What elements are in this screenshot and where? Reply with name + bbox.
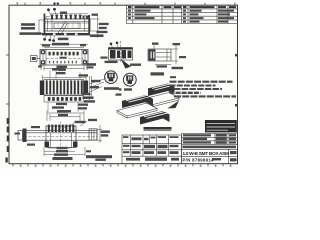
zone dots right edge bbox=[235, 54, 237, 106]
svg-text:P/N 87898914: P/N 87898914 bbox=[183, 158, 215, 163]
view 4 right end block bbox=[89, 129, 97, 140]
view 1 left dimension bbox=[38, 20, 44, 34]
view 4 left labels bbox=[15, 133, 36, 146]
view 2 upper dimension text band bbox=[40, 44, 88, 47]
view 3 right lower texts bbox=[83, 93, 96, 103]
view 4 leader labels upper right bbox=[75, 119, 98, 123]
view 3 lower pad row bbox=[44, 96, 84, 102]
iso B connector body bbox=[148, 84, 175, 97]
view 1 left end wall bbox=[44, 14, 46, 34]
view 5 right dimension bbox=[155, 45, 178, 65]
view 3 comb frame bbox=[44, 80, 84, 96]
view 4 left end piece bbox=[23, 129, 27, 143]
iso view B: connector on board (right) bbox=[143, 93, 179, 107]
view 4 feet bbox=[45, 142, 78, 148]
view 3 right dim lines bbox=[89, 76, 106, 100]
view 1 bottom seating band bbox=[42, 33, 90, 35]
iso view C: connector body alone bbox=[140, 111, 170, 125]
detail D arrow to circle C bbox=[121, 59, 132, 69]
leader arrow below notes bbox=[168, 101, 180, 109]
view 3 dim text rows below bbox=[52, 103, 88, 113]
view 4 small label above band left bbox=[31, 126, 40, 128]
view 2 lower dimension bbox=[41, 65, 87, 71]
view 4 center block bbox=[46, 126, 76, 148]
view 3 pin comb bars bbox=[46, 80, 83, 94]
zone ticks top edge bbox=[25, 3, 235, 6]
view 2 body bbox=[40, 50, 88, 66]
view 4 long body band bbox=[24, 129, 97, 140]
view 3 comb end blocks bbox=[40, 81, 88, 96]
view 2 center dim text bbox=[60, 57, 67, 59]
zone tick left edge bbox=[6, 55, 9, 104]
view 4 upper dim brackets bbox=[47, 111, 84, 122]
zone digits bottom margin bbox=[20, 165, 232, 167]
revision table header text bbox=[128, 6, 236, 8]
marking note above title block bbox=[144, 127, 172, 131]
view 1 top comb teeth bbox=[51, 15, 82, 20]
view 1 top balloons bbox=[47, 8, 56, 11]
detail D balloons bbox=[110, 42, 119, 46]
view 3 upper dim texts bbox=[52, 68, 88, 76]
detail view D: contact cross-section bbox=[109, 41, 133, 62]
view 2 datum flag bbox=[31, 56, 41, 62]
view 1 bottom balloons bbox=[43, 38, 55, 42]
view 1 right dimension column bbox=[90, 14, 100, 39]
view 1 body outline bbox=[44, 19, 90, 31]
view 4 centerline bbox=[60, 122, 62, 151]
detail circle B bbox=[105, 71, 118, 84]
title block right row texts bbox=[183, 134, 237, 148]
view 4 lower nested dims bbox=[44, 147, 85, 156]
iso A connector body bbox=[122, 95, 153, 108]
bottom center label texts bbox=[86, 150, 112, 161]
dark stamp box above title block right bbox=[205, 120, 237, 132]
detail C label bbox=[119, 88, 132, 90]
view 4 right dimension bbox=[97, 125, 102, 143]
revision table bbox=[127, 5, 238, 23]
view 1 right end wall bbox=[88, 15, 90, 33]
view 1 diagonal leaders bbox=[57, 21, 68, 35]
title block left cell texts bbox=[123, 136, 179, 161]
vertical sideways label on left border bbox=[5, 118, 9, 163]
notes text block bbox=[170, 82, 237, 97]
revision table row entries bbox=[128, 10, 234, 23]
view 5 top mark bbox=[152, 43, 159, 45]
svg-text:1.0 W-B SMT BOX ASM +: 1.0 W-B SMT BOX ASM + bbox=[183, 151, 233, 157]
title block right section bbox=[182, 134, 238, 164]
view 2 cap corner details bbox=[41, 50, 88, 64]
view 1 inner hatch under teeth bbox=[58, 22, 78, 29]
notes heading mark bbox=[170, 76, 176, 78]
top edge dark dots near x55 bbox=[53, 2, 59, 4]
view 5: mated side view (right of detail D) bbox=[148, 49, 171, 61]
detail circle C bbox=[123, 73, 136, 86]
zone digits top margin bbox=[17, 2, 102, 4]
title block left grid bbox=[122, 135, 182, 164]
view 2 lower tick row bbox=[49, 61, 77, 64]
view 4 center comb bbox=[48, 125, 75, 132]
border frame bbox=[9, 5, 238, 164]
iso view A: connector on board (left) bbox=[117, 103, 157, 118]
detail D label bbox=[101, 57, 118, 64]
view 2 pin squares row bbox=[49, 52, 79, 56]
detail B label bbox=[104, 87, 119, 90]
view 2 right leader label bbox=[82, 58, 87, 64]
view 1 right raised block bbox=[83, 16, 90, 20]
view 1 lower-right text bbox=[58, 38, 69, 41]
zone ticks bottom edge bbox=[13, 164, 223, 167]
view 1 dim line above teeth bbox=[51, 13, 88, 15]
pin 1 label near iso A bbox=[116, 94, 122, 96]
